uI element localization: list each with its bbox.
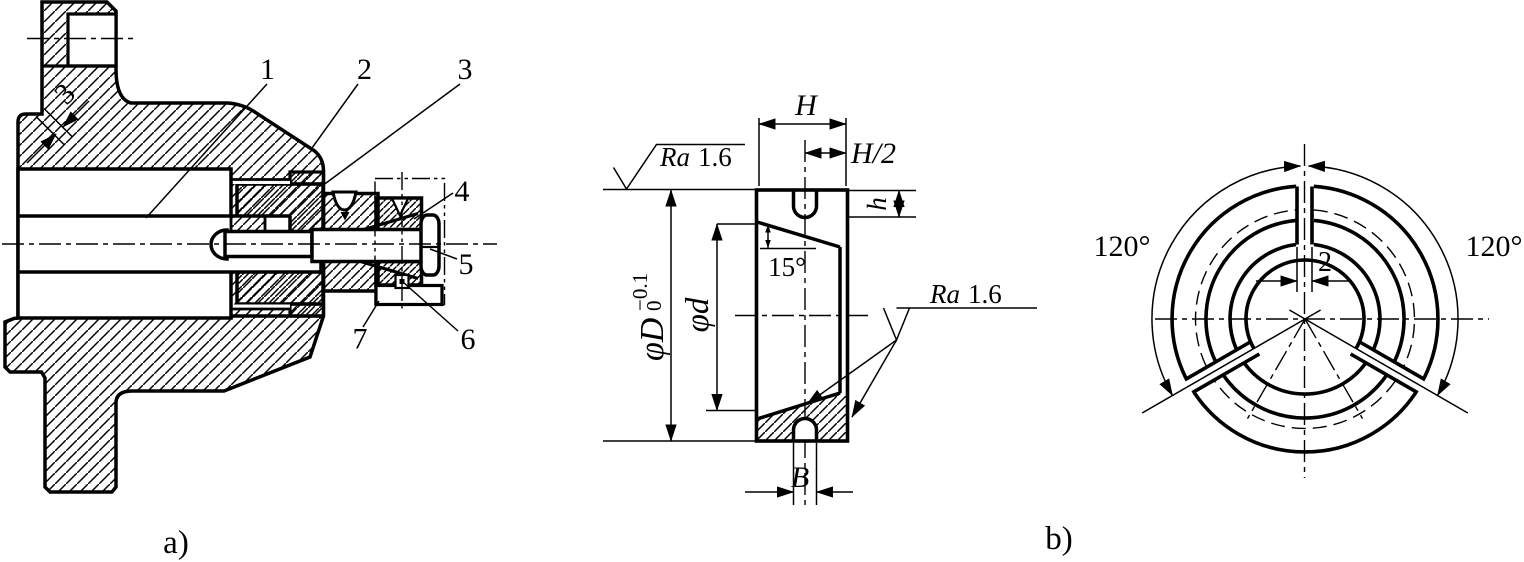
svg-text:15°: 15° [768, 252, 806, 282]
svg-text:h: h [862, 197, 892, 211]
svg-text:B: B [791, 461, 809, 494]
svg-text:b): b) [1045, 521, 1073, 557]
svg-text:1.6: 1.6 [968, 279, 1002, 309]
svg-text:6: 6 [461, 323, 476, 356]
svg-text:2: 2 [1318, 247, 1332, 278]
svg-text:H: H [794, 89, 819, 122]
svg-text:φd: φd [680, 297, 716, 332]
svg-text:3: 3 [458, 53, 473, 86]
svg-text:120°: 120° [1466, 230, 1523, 263]
svg-text:−0.1: −0.1 [628, 273, 652, 311]
svg-text:120°: 120° [1094, 230, 1151, 263]
svg-text:4: 4 [455, 175, 470, 208]
svg-text:5: 5 [459, 248, 474, 281]
svg-text:2: 2 [357, 53, 372, 86]
svg-text:φD: φD [634, 317, 671, 361]
svg-text:1.6: 1.6 [698, 142, 732, 172]
svg-text:H/2: H/2 [850, 137, 896, 170]
svg-text:Ra: Ra [659, 142, 690, 172]
svg-text:a): a) [163, 525, 189, 561]
svg-text:1: 1 [260, 53, 275, 86]
svg-text:7: 7 [353, 323, 368, 356]
svg-text:Ra: Ra [929, 279, 960, 309]
